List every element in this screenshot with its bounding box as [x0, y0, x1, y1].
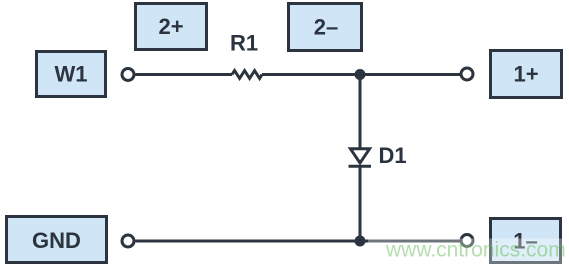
- terminal box 1-: [491, 219, 561, 263]
- svg-text:GND: GND: [32, 228, 81, 253]
- junction node B: [355, 236, 366, 247]
- terminal circle 1-: [461, 235, 473, 247]
- wire W1 terminal to R1: [136, 73, 233, 76]
- svg-text:2+: 2+: [158, 14, 183, 39]
- svg-text:W1: W1: [55, 62, 88, 87]
- terminal circle 1+: [461, 68, 473, 80]
- wire D1 cathode to node B: [359, 167, 362, 242]
- junction node A: [355, 69, 366, 80]
- terminal circle GND: [122, 235, 134, 247]
- terminal box 1+: [491, 51, 562, 98]
- wire node A to D1 anode: [359, 75, 362, 150]
- svg-text:D1: D1: [379, 143, 407, 168]
- wire node B to 1- terminal: [360, 240, 460, 243]
- svg-text:1+: 1+: [513, 62, 538, 87]
- terminal box W1: [37, 52, 106, 97]
- wire GND terminal to node B: [136, 240, 361, 243]
- terminal circle W1: [122, 69, 134, 81]
- scope terminal box 2-: [289, 4, 362, 51]
- watermark: [368, 239, 569, 270]
- svg-text:R1: R1: [230, 31, 258, 56]
- scope terminal box 2+: [136, 4, 207, 50]
- terminal box GND: [7, 217, 107, 263]
- wire R1 to node A: [262, 73, 360, 76]
- svg-text:www.cntronics.com: www.cntronics.com: [385, 239, 566, 262]
- wire node A to 1+ terminal: [360, 73, 460, 76]
- diode D1: [349, 149, 372, 166]
- svg-text:2–: 2–: [314, 15, 338, 40]
- resistor R1: [232, 71, 262, 79]
